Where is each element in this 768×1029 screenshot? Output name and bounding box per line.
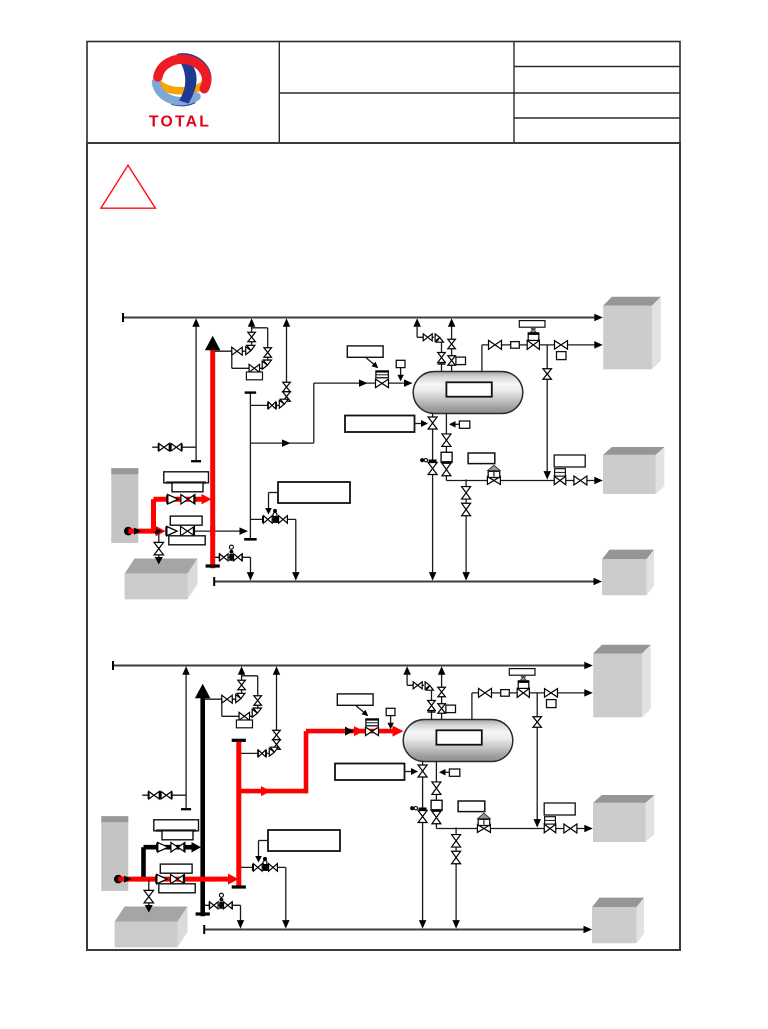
gas bypass drop line A (546, 345, 548, 475)
vent link valve B (413, 682, 422, 689)
drain stub bleed valve body B (219, 902, 223, 909)
lower line check valve A (167, 526, 178, 536)
PSV A inlet isolation valve B (222, 695, 233, 703)
drain collection line B (204, 929, 587, 931)
3D outlet box A1 front face (603, 306, 652, 370)
content frame border (87, 143, 680, 950)
PSV tag box B (236, 720, 252, 728)
3D drain tank B front face (115, 922, 178, 948)
3D outlet box A3 top face (602, 550, 654, 560)
3D outlet box A1 side face (652, 297, 661, 370)
arrow down from drain stub A (247, 572, 254, 581)
thin line from lower valves to blowdown header (193, 530, 245, 532)
black upper discharge line (thick) (144, 845, 193, 850)
3D outlet box B3 side face (637, 898, 645, 944)
gas line check valve A (555, 341, 568, 350)
gas CV actuator A (528, 333, 539, 340)
vessel relief valve 2 A (448, 356, 456, 366)
liquid CV tag box A (468, 453, 495, 464)
arrow up into header from spare PSV leg B (273, 666, 280, 675)
3D outlet box B3 front face (592, 907, 637, 943)
3D outlet box A1 top face (603, 297, 661, 306)
level B valve 2 A (442, 463, 451, 476)
black arrowhead inside red arrow (155, 528, 162, 535)
liquid line check valve A (574, 476, 587, 485)
level B valve 1 A (442, 434, 451, 447)
gas outlet riser B (471, 693, 473, 720)
drain stub elbow B (240, 905, 242, 924)
PSV B outlet riser B (257, 676, 259, 709)
pump discharge riser bottom cap (196, 912, 210, 915)
stub line into left vent riser A (152, 446, 196, 448)
gas line small box below B (547, 700, 557, 708)
PSV B inlet isolation valve A (249, 364, 259, 372)
drain A tag box with arrow A (345, 416, 415, 433)
pump drain valve A (154, 542, 164, 555)
level B small box with arrow A (459, 421, 469, 428)
PSV vent line to header B (241, 672, 243, 676)
header middle column row divider (279, 92, 514, 94)
minimum flow branch B (241, 866, 286, 868)
recycle tag leader A (269, 492, 279, 494)
separator vessel A (413, 372, 523, 414)
red recycle vertical header (thick red) (236, 740, 241, 887)
PSV B inlet line A (232, 367, 263, 369)
PSV tag box A (246, 372, 262, 380)
level B valve 1 B (432, 782, 441, 795)
PSV A angled relief valve B (236, 693, 245, 702)
feed line open arrow black (345, 727, 354, 736)
drain stub flange tick right B (231, 902, 233, 910)
level line B A (445, 414, 447, 477)
min flow valve 1 B (253, 864, 262, 872)
drain stub valve 2 A (234, 554, 243, 561)
liquid CV actuator B (478, 819, 490, 825)
liquid CV tag box B (458, 801, 485, 812)
vessel relief valve 1 A (448, 339, 456, 349)
recycle tag box B (268, 830, 340, 851)
stub line into left vent riser B (142, 794, 186, 796)
vessel drain valve A1 B (418, 765, 427, 777)
spare PSV angled valve B (269, 747, 278, 756)
blowdown vertical header bottom cap (244, 538, 257, 541)
vessel relief tag box B (446, 705, 456, 713)
drain stub flange tick right A (241, 554, 243, 562)
level B pot A (441, 452, 452, 462)
liquid line small CV B (544, 824, 556, 833)
blowdown vertical header (249, 392, 251, 539)
PSV A angled relief valve A (246, 345, 255, 354)
header divider logo/middle column (278, 42, 280, 144)
gas CV tag box A (519, 321, 545, 328)
black riser elbow (thick) (141, 847, 146, 877)
drain A tag box with arrow B (335, 764, 405, 781)
PSV B angled relief valve A (262, 360, 271, 369)
red feed riser (thick red) (304, 731, 309, 793)
vent line from header arrow A (413, 318, 421, 327)
liquid small CV actuator A (555, 469, 566, 476)
pump tag box 4 A (169, 536, 205, 545)
vent line from header arrow B (403, 666, 411, 675)
gas bypass drop valve A (543, 369, 552, 380)
vessel relief valve 1 B (438, 687, 446, 697)
gas line small box B (501, 690, 510, 697)
feed control valve A (376, 379, 389, 388)
red riser overdraw at crossing (210, 526, 215, 536)
vent link valve A (423, 334, 432, 341)
spare PSV angled valve A (279, 399, 288, 408)
vessel drain valve A2 A (428, 463, 437, 475)
liquid outlet line A (446, 480, 598, 482)
arrow into outlet box B1 from gas line (584, 689, 593, 697)
drain stub bleed dot and circle A (230, 550, 234, 554)
feed control valve actuator A (376, 371, 389, 378)
red feed branch arrow (261, 786, 271, 796)
vessel drain valve A1 A (428, 417, 437, 429)
spare PSV link line B (240, 752, 269, 754)
arrow down from drain stub B (237, 920, 244, 929)
lower line gate valve A (181, 526, 195, 536)
liquid line drain drop B (455, 827, 457, 924)
arrow up into header from spare PSV leg A (283, 318, 290, 327)
arrow down from min flow A (292, 572, 300, 581)
red startup riser (thick red line) (210, 350, 215, 568)
arrow up into header from PSV group A (248, 318, 256, 327)
gas line small box A (511, 342, 520, 349)
3D outlet box B1 front face (593, 654, 642, 718)
spare PSV leg valve 2 A (283, 392, 291, 402)
arrow into outlet box A2 (594, 477, 603, 484)
black arrowhead after pump nozzle (124, 876, 132, 883)
3D outlet box A3 front face (602, 559, 647, 595)
vent drop to vessel B (431, 690, 433, 720)
recycle tag leader B (259, 840, 269, 842)
PSV B inlet line B (222, 715, 253, 717)
lower line check valve B (157, 874, 168, 884)
liquid small CV actuator B (545, 817, 556, 824)
vessel feed line (314, 382, 411, 384)
PSV B outlet riser A (267, 328, 269, 361)
gas outlet line A (482, 344, 598, 346)
drain A sample point B (419, 808, 427, 811)
drain drop valve 2 A (462, 503, 471, 516)
3D outlet box A2 front face (603, 455, 656, 494)
vent angled valve A (435, 334, 443, 342)
liquid control valve A (487, 477, 500, 485)
liquid line small CV A (554, 476, 566, 485)
PSV B outlet valve B (254, 696, 262, 706)
red arrow into recycle riser (228, 874, 239, 885)
drain stub bleed valve body A (229, 554, 233, 561)
minimum flow branch A (250, 518, 295, 520)
PSV outlet header link A (252, 327, 268, 329)
gas CV tag box B (509, 669, 535, 676)
PSV A outlet valve B (238, 680, 246, 690)
arrow up into header from PSV group B (238, 666, 246, 675)
pump drain drop A (158, 531, 160, 557)
flare header line A (123, 317, 598, 319)
red pump discharge line (thick red full) (118, 877, 218, 882)
PSV A inlet isolation valve A (232, 347, 243, 355)
arrow down from min flow B (282, 920, 290, 929)
pump tag box 1 A (164, 472, 209, 483)
3D outlet box B1 side face (642, 645, 651, 718)
red upper discharge line (154, 497, 203, 502)
left vent riser A (195, 324, 197, 461)
drain collection line A (214, 581, 597, 583)
blowdown vertical header top cap (245, 391, 257, 393)
upper line gate valve B (171, 842, 185, 852)
black arrowhead at top of pump discharge riser (195, 684, 211, 699)
liquid control valve B (477, 825, 490, 833)
gas line isolation valve B (479, 688, 492, 697)
gas outlet riser A (481, 345, 483, 372)
3D outlet box B1 top face (593, 645, 651, 654)
header right column row divider 3 (514, 117, 680, 119)
liquid outlet line B (436, 828, 588, 830)
drain stub valve 2 B (224, 902, 233, 909)
min flow valve 2 A (279, 516, 288, 524)
stub isolation valve 2 A (171, 443, 182, 451)
red feed branch line (thick red) (239, 789, 306, 794)
spare PSV link valve A (268, 402, 276, 409)
PSV A outlet valve A (248, 332, 256, 342)
vessel drain valve A2 B (418, 811, 427, 823)
vessel name box A (446, 382, 491, 396)
red recycle header bottom cap (232, 885, 246, 888)
arrow up into header from vessel relief A (448, 318, 456, 327)
min flow elbow down A (295, 519, 297, 576)
level line B B (435, 762, 437, 825)
PSV B angled relief valve B (252, 708, 261, 717)
level B valve 2 B (432, 811, 441, 824)
PSV inlet line from riser B (205, 698, 236, 700)
feed small instrument box A (396, 360, 405, 367)
drain drop valve 1 A (462, 487, 471, 500)
svg-text:TOTAL: TOTAL (149, 114, 211, 131)
red arrow on lower segment (156, 526, 166, 537)
red arrow into vessel inlet (393, 726, 404, 737)
upper line check valve A (168, 494, 179, 504)
red recycle header top cap (232, 739, 246, 742)
drain A sample point A (429, 460, 437, 463)
pump suction nozzle dot B (114, 875, 123, 884)
PSV inlet line from riser A (215, 350, 246, 352)
black arrowhead at top of red startup riser (205, 336, 221, 351)
min flow valve 1 A (263, 516, 272, 524)
liquid outlet elbow A (445, 476, 447, 481)
drain stub flange tick left B (208, 902, 210, 910)
vent angled valve B (425, 682, 433, 690)
feed branch line to vessel riser (250, 442, 313, 444)
recycle tag box A (278, 482, 350, 503)
vent drop to vessel A (441, 342, 443, 372)
3D outlet box B2 side face (646, 795, 655, 842)
red riser elbow (151, 499, 156, 531)
feed small instrument box B (386, 708, 395, 715)
red warning triangle (101, 165, 155, 208)
stub isolation valve 1 B (149, 791, 160, 799)
vessel relief valve 2 B (438, 704, 446, 714)
flare header left end tick B (112, 661, 114, 670)
gas line control valve B (517, 688, 529, 697)
header right column row divider 2 (514, 92, 680, 94)
PSV B inlet isolation valve B (239, 712, 250, 720)
black pump discharge riser (thick) (200, 698, 205, 916)
liquid line check valve B (564, 824, 577, 833)
3D outlet box A2 top face (603, 447, 664, 455)
spare PSV leg valve 2 B (273, 740, 281, 750)
gas line check valve B (545, 689, 558, 698)
3D outlet box B2 top face (593, 795, 654, 803)
feed instrument arrow down A (397, 375, 404, 382)
arrow down onto liquid line A (544, 471, 552, 480)
pump drain drop B (148, 879, 150, 905)
PSV B outlet valve A (264, 348, 272, 358)
liquid outlet elbow B (435, 824, 437, 829)
arrow into outlet box B2 (584, 825, 593, 832)
arrow up into header from left vent riser A (192, 318, 200, 327)
3D outlet box A2 side face (656, 447, 665, 494)
min flow orifice A (273, 516, 278, 523)
3D drain tank A front face (125, 574, 188, 600)
upper line gate valve A (181, 494, 195, 504)
pump drain valve B (144, 890, 154, 903)
vent horizontal link A (417, 336, 434, 338)
pump tag box 2 A (172, 483, 203, 492)
arrow down onto drain tank B (145, 905, 153, 913)
separator vessel B (403, 720, 513, 762)
lower line gate valve B (171, 874, 185, 884)
arrow into outlet box A3 from drain line (594, 578, 603, 585)
feed riser to vessel inlet (313, 383, 315, 443)
header table outer border (87, 42, 680, 144)
level B pot B (431, 800, 442, 810)
arrow into outlet box B1 from header (584, 662, 593, 669)
tall supply column A (111, 468, 138, 543)
arrow down from drain drop A (462, 572, 470, 581)
feed CV tag box with leader B (337, 694, 373, 705)
upper line check valve B (158, 842, 169, 852)
pump tag box 3 B (160, 864, 192, 873)
min flow orifice B (263, 864, 268, 871)
drain drop valve 1 B (452, 835, 461, 848)
vessel name box B (436, 730, 481, 744)
black arrow into discharge riser (192, 842, 202, 853)
red arrow into startup riser (202, 494, 212, 505)
feed branch arrow (282, 439, 291, 447)
gas line control valve A (527, 340, 539, 349)
min flow valve 2 B (269, 864, 278, 872)
liquid line drain drop A (465, 479, 467, 576)
drain stub valve 1 A (220, 554, 229, 561)
liquid small CV tag box A (554, 455, 585, 467)
spare PSV link line A (250, 404, 279, 406)
pump tag box 3 A (170, 516, 202, 525)
gas CV actuator B (518, 681, 529, 688)
vessel relief riser A (451, 324, 453, 372)
spare PSV leg valve 1 B (273, 730, 281, 740)
vessel drain line A B (422, 762, 424, 925)
arrow into outlet box A1 from header (594, 314, 603, 321)
red pump discharge lower segment (128, 529, 156, 534)
arrow down onto drain tank A (155, 557, 163, 565)
black arrowhead after pump nozzle (134, 528, 142, 535)
level B small box with arrow B (449, 769, 459, 776)
drain collection line left tick A (213, 577, 215, 586)
vent drop valve A (438, 353, 446, 363)
drain drop valve 2 B (452, 851, 461, 864)
gas line small box below A (557, 352, 567, 360)
liquid CV actuator A (488, 471, 500, 477)
gas outlet line B (472, 692, 588, 694)
vent drop valve B (428, 701, 436, 711)
gas line isolation valve A (489, 340, 502, 349)
arrow down from drain A B (419, 920, 427, 929)
spare PSV leg riser A (286, 324, 288, 399)
vessel relief riser B (441, 672, 443, 720)
vent horizontal link B (407, 684, 424, 686)
3D outlet box B3 top face (592, 898, 644, 908)
pump suction nozzle dot A (124, 527, 133, 536)
tall supply column B (101, 816, 128, 891)
min flow elbow down B (285, 867, 287, 924)
left vent riser bottom cap B (181, 808, 191, 810)
pump tag box 2 B (162, 831, 193, 840)
red feed arrow mid (354, 726, 364, 736)
drain stub flange tick left A (218, 554, 220, 562)
flare header left end tick A (122, 313, 124, 322)
stub isolation valve 1 A (159, 443, 170, 451)
drain collection line left tick B (203, 925, 205, 934)
feed instrument arrow down B (387, 723, 394, 730)
arrow into outlet box B3 from drain line (584, 926, 593, 933)
red startup riser bottom cap (206, 564, 220, 567)
vessel relief tag box A (456, 357, 466, 365)
red vessel feed line (thick red) (306, 729, 398, 734)
arrow down onto liquid line B (534, 819, 542, 828)
PSV vent line to header A (251, 324, 253, 328)
liquid small CV tag box B (544, 803, 575, 815)
drain stub line B (205, 904, 241, 906)
header right column row divider 1 (514, 66, 680, 68)
left vent riser bottom cap A (191, 460, 201, 462)
drain stub valve 1 B (210, 902, 219, 909)
left vent riser B (185, 672, 187, 809)
TOTAL logo globe (156, 57, 208, 104)
gas bypass drop line B (536, 693, 538, 823)
vessel drain line A A (432, 414, 434, 577)
3D drain tank B side face (178, 907, 188, 948)
PSV bypass drop line A (231, 351, 233, 368)
header divider middle/right column (513, 42, 515, 144)
gas bypass drop valve B (533, 717, 542, 728)
arrow up into header from left vent riser B (182, 666, 190, 675)
pump tag box 4 B (159, 884, 195, 893)
PSV A outlet riser B (241, 676, 243, 694)
spare PSV link valve B (258, 750, 266, 757)
arrow into outlet box A1 from gas line (594, 341, 603, 349)
3D drain tank A top face (125, 559, 198, 574)
feed CV tag box with leader A (347, 346, 383, 357)
flare header line B (113, 665, 588, 667)
drain stub bleed dot and circle B (220, 898, 224, 902)
PSV outlet header link B (242, 675, 258, 677)
arrow into vessel inlet (404, 379, 413, 387)
arrow down from drain drop B (452, 920, 460, 929)
PSV A outlet riser A (251, 328, 253, 346)
arrow up into header from vessel relief B (438, 666, 446, 675)
